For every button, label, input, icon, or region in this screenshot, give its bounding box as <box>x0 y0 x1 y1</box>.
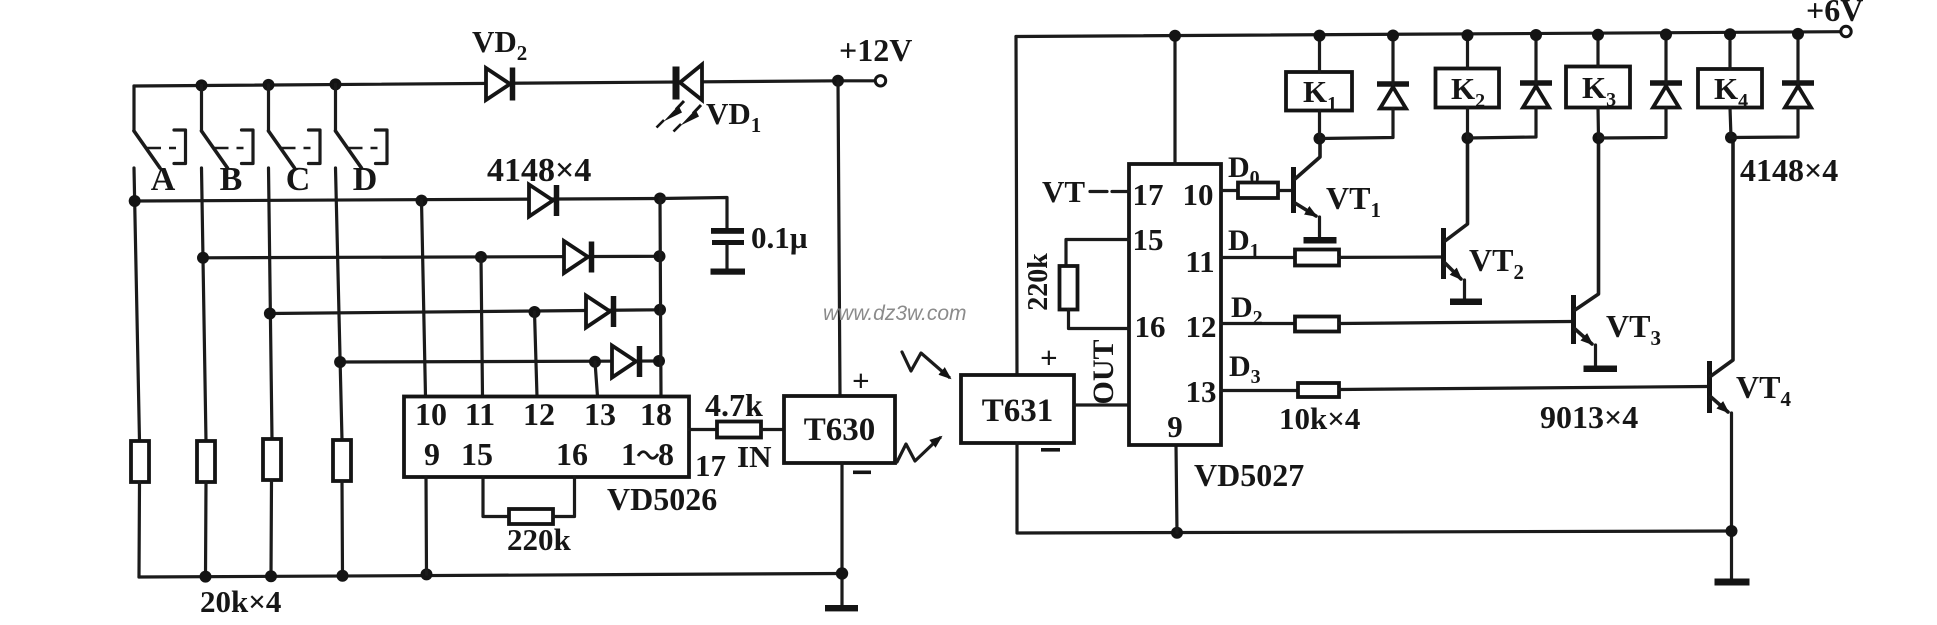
diode row3 4148 <box>586 296 614 328</box>
wire column C <box>269 168 273 439</box>
resistor 10k D1 <box>1295 250 1339 266</box>
resistor 220k receiver <box>1060 266 1078 310</box>
wire row 4 (D data) <box>340 361 659 362</box>
diode flyback K1 <box>1320 36 1410 139</box>
junction dot top rail B <box>196 79 208 91</box>
module T630 box <box>784 396 895 463</box>
wire pin16 down <box>553 477 575 517</box>
label - T631 <box>1041 448 1060 452</box>
svg-text:8: 8 <box>658 436 674 472</box>
junction dot rail K2 <box>1462 29 1474 41</box>
svg-text:15: 15 <box>461 436 493 472</box>
junction dot rail K3 <box>1592 29 1604 41</box>
junction dot rail B <box>200 571 212 583</box>
svg-text:4148×4: 4148×4 <box>487 152 591 189</box>
wire RB to ground rail <box>204 482 208 577</box>
IC U1 VD5026 box <box>404 397 689 478</box>
svg-text:T631: T631 <box>982 393 1054 429</box>
svg-text:20k×4: 20k×4 <box>200 584 281 619</box>
wire column D <box>336 168 343 440</box>
junction dot K2 collector <box>1462 132 1474 144</box>
wire pin15 to 220k <box>1066 240 1129 267</box>
svg-text:9013×4: 9013×4 <box>1540 399 1638 435</box>
label - T630 <box>853 471 871 475</box>
ground below capacitor <box>711 269 746 275</box>
diode flyback K2 <box>1468 35 1553 138</box>
wire T630 minus down <box>840 463 843 605</box>
resistor RB 20k <box>197 441 215 482</box>
svg-text:www.dz3w.com: www.dz3w.com <box>823 302 967 325</box>
diode flyback K3 <box>1599 35 1683 139</box>
svg-text:16: 16 <box>1135 309 1166 344</box>
svg-text:13: 13 <box>584 396 616 432</box>
svg-text:9: 9 <box>424 436 440 472</box>
wire pin15 down <box>483 477 509 517</box>
diode VD2 <box>486 68 513 101</box>
resistor 10k D0 <box>1238 183 1278 199</box>
junction dot row2 pin11 <box>475 251 487 263</box>
svg-text:17: 17 <box>1133 177 1164 212</box>
resistor 10k D2 <box>1295 317 1339 332</box>
junction dot K4 collector <box>1725 132 1737 144</box>
junction dot T630 ground rail <box>836 567 848 579</box>
svg-text:+: + <box>1040 340 1058 375</box>
switch D <box>336 84 388 168</box>
wire 220k to pin16 <box>1069 310 1130 329</box>
junction dot row4 left <box>334 356 346 368</box>
junction dot rail D <box>337 570 349 582</box>
wire pin9 to rail <box>424 477 428 574</box>
wire RC to ground rail <box>269 480 273 576</box>
svg-text:12: 12 <box>1186 309 1217 344</box>
module T631 box <box>961 375 1074 443</box>
wire pin10 D0 <box>1221 189 1238 192</box>
svg-text:13: 13 <box>1186 374 1217 409</box>
svg-text:16: 16 <box>556 436 588 472</box>
wire K4 bottom <box>1730 108 1731 138</box>
transistor VT3 <box>1571 138 1599 366</box>
junction dot row2 right <box>654 250 666 262</box>
wire T631 minus down <box>1017 443 1732 533</box>
svg-text:D: D <box>353 161 378 198</box>
junction dot row3 pin12 <box>529 306 541 318</box>
junction dot rail diode K3 <box>1660 29 1672 41</box>
svg-text:0.1µ: 0.1µ <box>751 220 808 255</box>
svg-text:10k×4: 10k×4 <box>1279 401 1360 436</box>
junction dot row3 left <box>264 308 276 320</box>
svg-text:10: 10 <box>415 396 447 432</box>
transistor VT2 <box>1441 138 1468 299</box>
wire K1 bottom <box>1318 111 1321 139</box>
junction dot row2 left <box>197 252 209 264</box>
wire +12V rail down to T630 <box>838 81 840 396</box>
junction dot rail diode K4 <box>1792 28 1804 40</box>
svg-text:VT: VT <box>1042 174 1085 209</box>
wire 4.7k to T630 <box>761 428 784 431</box>
junction dot rail VD5027 <box>1169 30 1181 42</box>
wire pin18 column <box>660 199 661 397</box>
switch A <box>134 86 186 168</box>
junction dot rail K1 <box>1314 30 1326 42</box>
diode row2 4148 <box>564 241 592 273</box>
svg-text:+12V: +12V <box>839 32 912 68</box>
wire pin12 D2 <box>1221 322 1295 325</box>
terminal +6V open circle <box>1841 26 1851 36</box>
svg-text:VD5027: VD5027 <box>1194 457 1304 493</box>
wire pin12 column <box>535 312 538 397</box>
diode row4 4148 <box>612 346 640 378</box>
svg-text:T630: T630 <box>804 412 876 448</box>
junction dot row1 right <box>654 193 666 205</box>
junction dot top rail D <box>330 78 342 90</box>
junction dot rail diode K2 <box>1530 29 1542 41</box>
diode flyback K4 <box>1731 34 1814 138</box>
junction dot +12V branch <box>832 75 844 87</box>
wire row 3 (C data) <box>270 310 660 314</box>
wire K2 top <box>1466 35 1469 68</box>
svg-text:1: 1 <box>621 436 637 472</box>
wire D0 to VT1 base <box>1278 189 1291 192</box>
switch B <box>202 85 254 168</box>
wire VT to pin17 <box>1090 190 1129 193</box>
resistor 220k under IC <box>509 509 553 524</box>
svg-text:17: 17 <box>695 448 726 483</box>
svg-text:18: 18 <box>640 396 672 432</box>
svg-text:IN: IN <box>737 439 771 474</box>
wire +6V rail down to T631 <box>1016 37 1017 376</box>
capacitor 0.1u plates <box>711 228 744 269</box>
wire K1 top <box>1318 36 1321 72</box>
ground VT3 <box>1584 366 1618 373</box>
pin label 1~8 <box>621 436 674 472</box>
svg-text:11: 11 <box>465 396 495 432</box>
ground T630 <box>825 605 858 611</box>
IC U2 VD5027 box <box>1129 164 1221 445</box>
wire K3 top <box>1596 35 1599 67</box>
wire pin13 D3 <box>1221 389 1298 392</box>
wire pin11 D1 <box>1221 256 1295 259</box>
resistor RC 20k <box>263 439 281 480</box>
wire row 2 (B data) <box>203 256 660 258</box>
wire pin10 column <box>422 201 426 397</box>
wire column B <box>202 168 207 441</box>
svg-text:C: C <box>286 161 311 198</box>
svg-text:A: A <box>151 161 176 198</box>
relay K1 box <box>1286 72 1352 111</box>
resistor RA 20k <box>131 441 149 482</box>
junction dot row1 pin10 <box>416 195 428 207</box>
svg-text:10: 10 <box>1183 177 1214 212</box>
junction dot row4 right <box>653 355 665 367</box>
wire K4 top <box>1728 34 1731 69</box>
wire D1 to VT2 base <box>1339 255 1441 259</box>
wire VD5027 pin9 down <box>1176 445 1177 533</box>
wire K2 bottom <box>1466 108 1469 139</box>
wire RD to ground rail <box>340 481 344 576</box>
junction dot rail K4 <box>1724 28 1736 40</box>
junction dot rail diode K1 <box>1387 30 1399 42</box>
transistor VT4 <box>1707 138 1733 579</box>
junction dot top rail C <box>263 79 275 91</box>
wire D3 to VT4 base <box>1339 387 1707 390</box>
wire bottom ground rail left <box>139 574 842 578</box>
relay K2 box <box>1436 69 1500 108</box>
svg-text:4148×4: 4148×4 <box>1740 152 1838 188</box>
wire pin17 to resistor <box>689 428 717 431</box>
wire OUT T631 to VD5027 <box>1074 403 1129 406</box>
junction dot rail pin9 <box>421 568 433 580</box>
junction dot K1 collector <box>1314 133 1326 145</box>
relay K4 box <box>1698 69 1762 108</box>
wire pin11 column <box>481 257 483 397</box>
junction dot row1 left <box>129 195 141 207</box>
svg-text:9: 9 <box>1167 409 1183 444</box>
RF arrow lower T630 to T631 <box>897 437 941 462</box>
wire pin13 column <box>595 362 598 397</box>
svg-text:OUT: OUT <box>1087 339 1120 404</box>
svg-text:+: + <box>852 363 870 398</box>
wire VD5027 top pin to +6V rail <box>1173 36 1176 164</box>
junction dot bottom rail pin9 <box>1171 527 1183 539</box>
svg-text:4.7k: 4.7k <box>705 387 763 423</box>
RF arrow upper T630 to T631 <box>902 352 950 378</box>
junction dot row4 pin13 <box>589 356 601 368</box>
resistor 10k D3 <box>1298 383 1339 397</box>
resistor RD 20k <box>333 440 351 481</box>
transistor VT1 <box>1291 139 1320 238</box>
svg-text:15: 15 <box>1133 222 1164 257</box>
svg-text:+6V: +6V <box>1806 0 1863 28</box>
svg-text:220k: 220k <box>1023 253 1054 311</box>
ground VT2 <box>1450 299 1482 306</box>
ground VT4 <box>1715 579 1750 586</box>
resistor 4.7k <box>717 422 761 438</box>
junction dot rail C <box>265 570 277 582</box>
LED VD1 emission arrows <box>657 101 702 132</box>
wire capacitor branch <box>660 198 727 229</box>
wire row 1 (A data) <box>135 199 660 202</box>
svg-text:11: 11 <box>1185 244 1214 279</box>
wire D2 to VT3 base <box>1339 322 1571 324</box>
LED VD1 <box>676 65 702 101</box>
junction dot VT4 emitter rail <box>1726 525 1738 537</box>
wire RA to ground rail <box>137 482 141 577</box>
ground VT1 <box>1304 237 1337 244</box>
svg-text:VD5026: VD5026 <box>607 481 717 517</box>
wire top +12V rail <box>134 81 875 86</box>
wire top +6V rail <box>1016 32 1841 37</box>
switch C <box>269 85 321 168</box>
relay K3 box <box>1566 67 1630 108</box>
terminal +12V open circle <box>875 76 885 86</box>
svg-text:220k: 220k <box>507 522 572 557</box>
junction dot K3 collector <box>1593 132 1605 144</box>
junction dot row3 right <box>654 304 666 316</box>
svg-text:B: B <box>220 161 243 198</box>
diode row1 4148 <box>529 185 557 217</box>
wire K3 bottom <box>1596 108 1600 139</box>
wire column A <box>134 168 140 441</box>
svg-text:12: 12 <box>523 396 555 432</box>
